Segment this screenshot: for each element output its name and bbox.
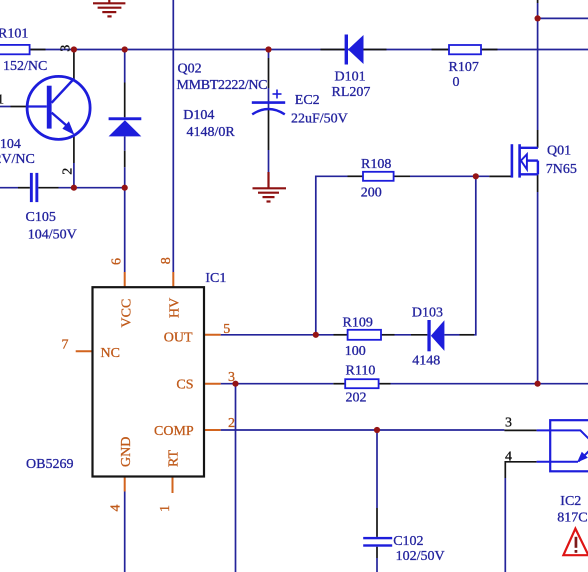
svg-text:EC2: EC2 — [295, 93, 320, 108]
svg-text:2: 2 — [61, 168, 76, 175]
wire top rail — [30, 49, 588, 51]
svg-text:3: 3 — [228, 370, 235, 385]
wire Q02 base lead — [0, 106, 11, 108]
resistor R108 — [363, 172, 394, 181]
svg-text:OUT: OUT — [164, 331, 193, 346]
ground GND2 EC2 — [253, 188, 287, 201]
svg-text:5: 5 — [223, 322, 230, 337]
resistor R109 — [348, 330, 381, 340]
wire COMP line — [204, 429, 537, 431]
optocoupler IC2 box — [537, 420, 588, 471]
svg-text:3: 3 — [58, 45, 73, 52]
svg-text:202: 202 — [346, 391, 367, 406]
svg-text:22uF/50V: 22uF/50V — [291, 111, 348, 126]
svg-text:Q02: Q02 — [178, 61, 202, 76]
svg-text:4: 4 — [505, 450, 512, 465]
node collector/rail — [71, 46, 77, 52]
wire Q02 collector lead — [73, 50, 75, 80]
wire D101 leads — [321, 49, 387, 51]
svg-text:6: 6 — [109, 258, 124, 265]
pin 1 RT stub — [172, 477, 174, 494]
node C105/D104 — [122, 185, 128, 191]
svg-text:HV: HV — [168, 298, 183, 318]
node COMP/C102 — [374, 427, 380, 433]
svg-text:1: 1 — [0, 92, 4, 107]
wire EC2 branch — [268, 50, 270, 189]
wire source vertical — [537, 174, 539, 383]
svg-text:R101: R101 — [0, 26, 28, 41]
mosfet Q01 — [512, 144, 538, 177]
svg-text:Q01: Q01 — [547, 143, 571, 158]
svg-text:1: 1 — [158, 505, 173, 512]
svg-text:C105: C105 — [26, 210, 56, 225]
svg-text:RT: RT — [166, 450, 181, 467]
svg-text:D103: D103 — [412, 306, 443, 321]
ground GND1 top — [93, 0, 125, 16]
svg-text:R109: R109 — [343, 315, 373, 330]
node emitter/C105 — [71, 185, 77, 191]
capacitor C105 — [30, 173, 38, 202]
svg-text:2: 2 — [228, 416, 235, 431]
warning triangle — [563, 529, 588, 556]
svg-text:R108: R108 — [361, 157, 391, 172]
svg-text:102/50V: 102/50V — [396, 549, 445, 564]
wire R101 lead — [30, 49, 46, 51]
wire drain vertical — [537, 0, 539, 148]
wire GND pin vertical — [124, 477, 126, 572]
svg-text:100: 100 — [345, 344, 366, 359]
diode D104 — [109, 117, 142, 136]
node drain branch — [535, 15, 541, 21]
node EC2/rail — [265, 46, 271, 52]
svg-text:152/NC: 152/NC — [3, 59, 47, 74]
wire C105 row — [0, 187, 125, 189]
node D104/rail — [122, 46, 128, 52]
node OUT — [313, 332, 319, 338]
svg-text:C104: C104 — [0, 137, 21, 152]
node CS — [232, 381, 238, 387]
resistor R101 — [0, 45, 30, 54]
svg-text:D104: D104 — [183, 108, 214, 123]
svg-text:8: 8 — [159, 257, 174, 264]
svg-text:7N65: 7N65 — [546, 162, 577, 177]
wire top-right branch — [538, 17, 588, 19]
svg-text:R110: R110 — [346, 364, 376, 379]
pin 8 HV stub — [172, 272, 174, 287]
svg-text:IC2: IC2 — [560, 494, 581, 509]
svg-text:IC1: IC1 — [205, 271, 226, 286]
resistor R110 — [345, 379, 378, 388]
svg-text:200: 200 — [361, 186, 382, 201]
pin 7 NC stub — [76, 350, 93, 352]
diode D101 — [345, 35, 364, 65]
svg-text:MMBT2222/NC: MMBT2222/NC — [177, 78, 268, 93]
svg-text:817C: 817C — [557, 511, 587, 526]
svg-text:GND: GND — [119, 437, 134, 467]
svg-text:OB5269: OB5269 — [26, 457, 73, 472]
svg-text:4: 4 — [109, 505, 124, 512]
svg-text:0: 0 — [453, 75, 460, 90]
svg-text:NC: NC — [101, 346, 120, 361]
svg-text:104/50V: 104/50V — [28, 227, 77, 242]
wire Q02 emitter lead — [73, 135, 75, 188]
pin 6 VCC stub — [124, 272, 126, 287]
wire OUT line — [204, 176, 476, 334]
svg-text:C102: C102 — [393, 534, 423, 549]
svg-text:RL207: RL207 — [332, 85, 371, 100]
svg-text:4148/0R: 4148/0R — [187, 125, 236, 140]
svg-text:D101: D101 — [335, 70, 366, 85]
capacitor C102 — [363, 537, 392, 547]
svg-text:CS: CS — [176, 378, 193, 393]
wire R107 leads — [432, 49, 498, 51]
diode D103 — [427, 320, 444, 351]
IC1 OB5269 box — [93, 287, 205, 476]
svg-text:3: 3 — [505, 416, 512, 431]
node gate — [473, 173, 479, 179]
svg-text:VCC: VCC — [120, 299, 135, 328]
wire opto pin4 — [505, 462, 536, 572]
wire CS vertical — [235, 384, 237, 572]
wire D104 branch — [124, 50, 126, 273]
svg-text:R107: R107 — [449, 60, 479, 75]
svg-text:7: 7 — [62, 338, 69, 353]
wire C102 vertical — [376, 430, 378, 572]
wire R108 loop — [316, 176, 512, 334]
capacitor EC2 — [252, 90, 285, 115]
svg-text:COMP: COMP — [154, 424, 194, 439]
transistor Q02 — [27, 76, 90, 139]
resistor R107 — [449, 45, 481, 54]
svg-text:2V/NC: 2V/NC — [0, 152, 35, 167]
wire CS line — [204, 383, 588, 385]
node source/R110 — [535, 381, 541, 387]
wire HV vertical — [172, 0, 174, 272]
svg-text:4148: 4148 — [412, 354, 440, 369]
